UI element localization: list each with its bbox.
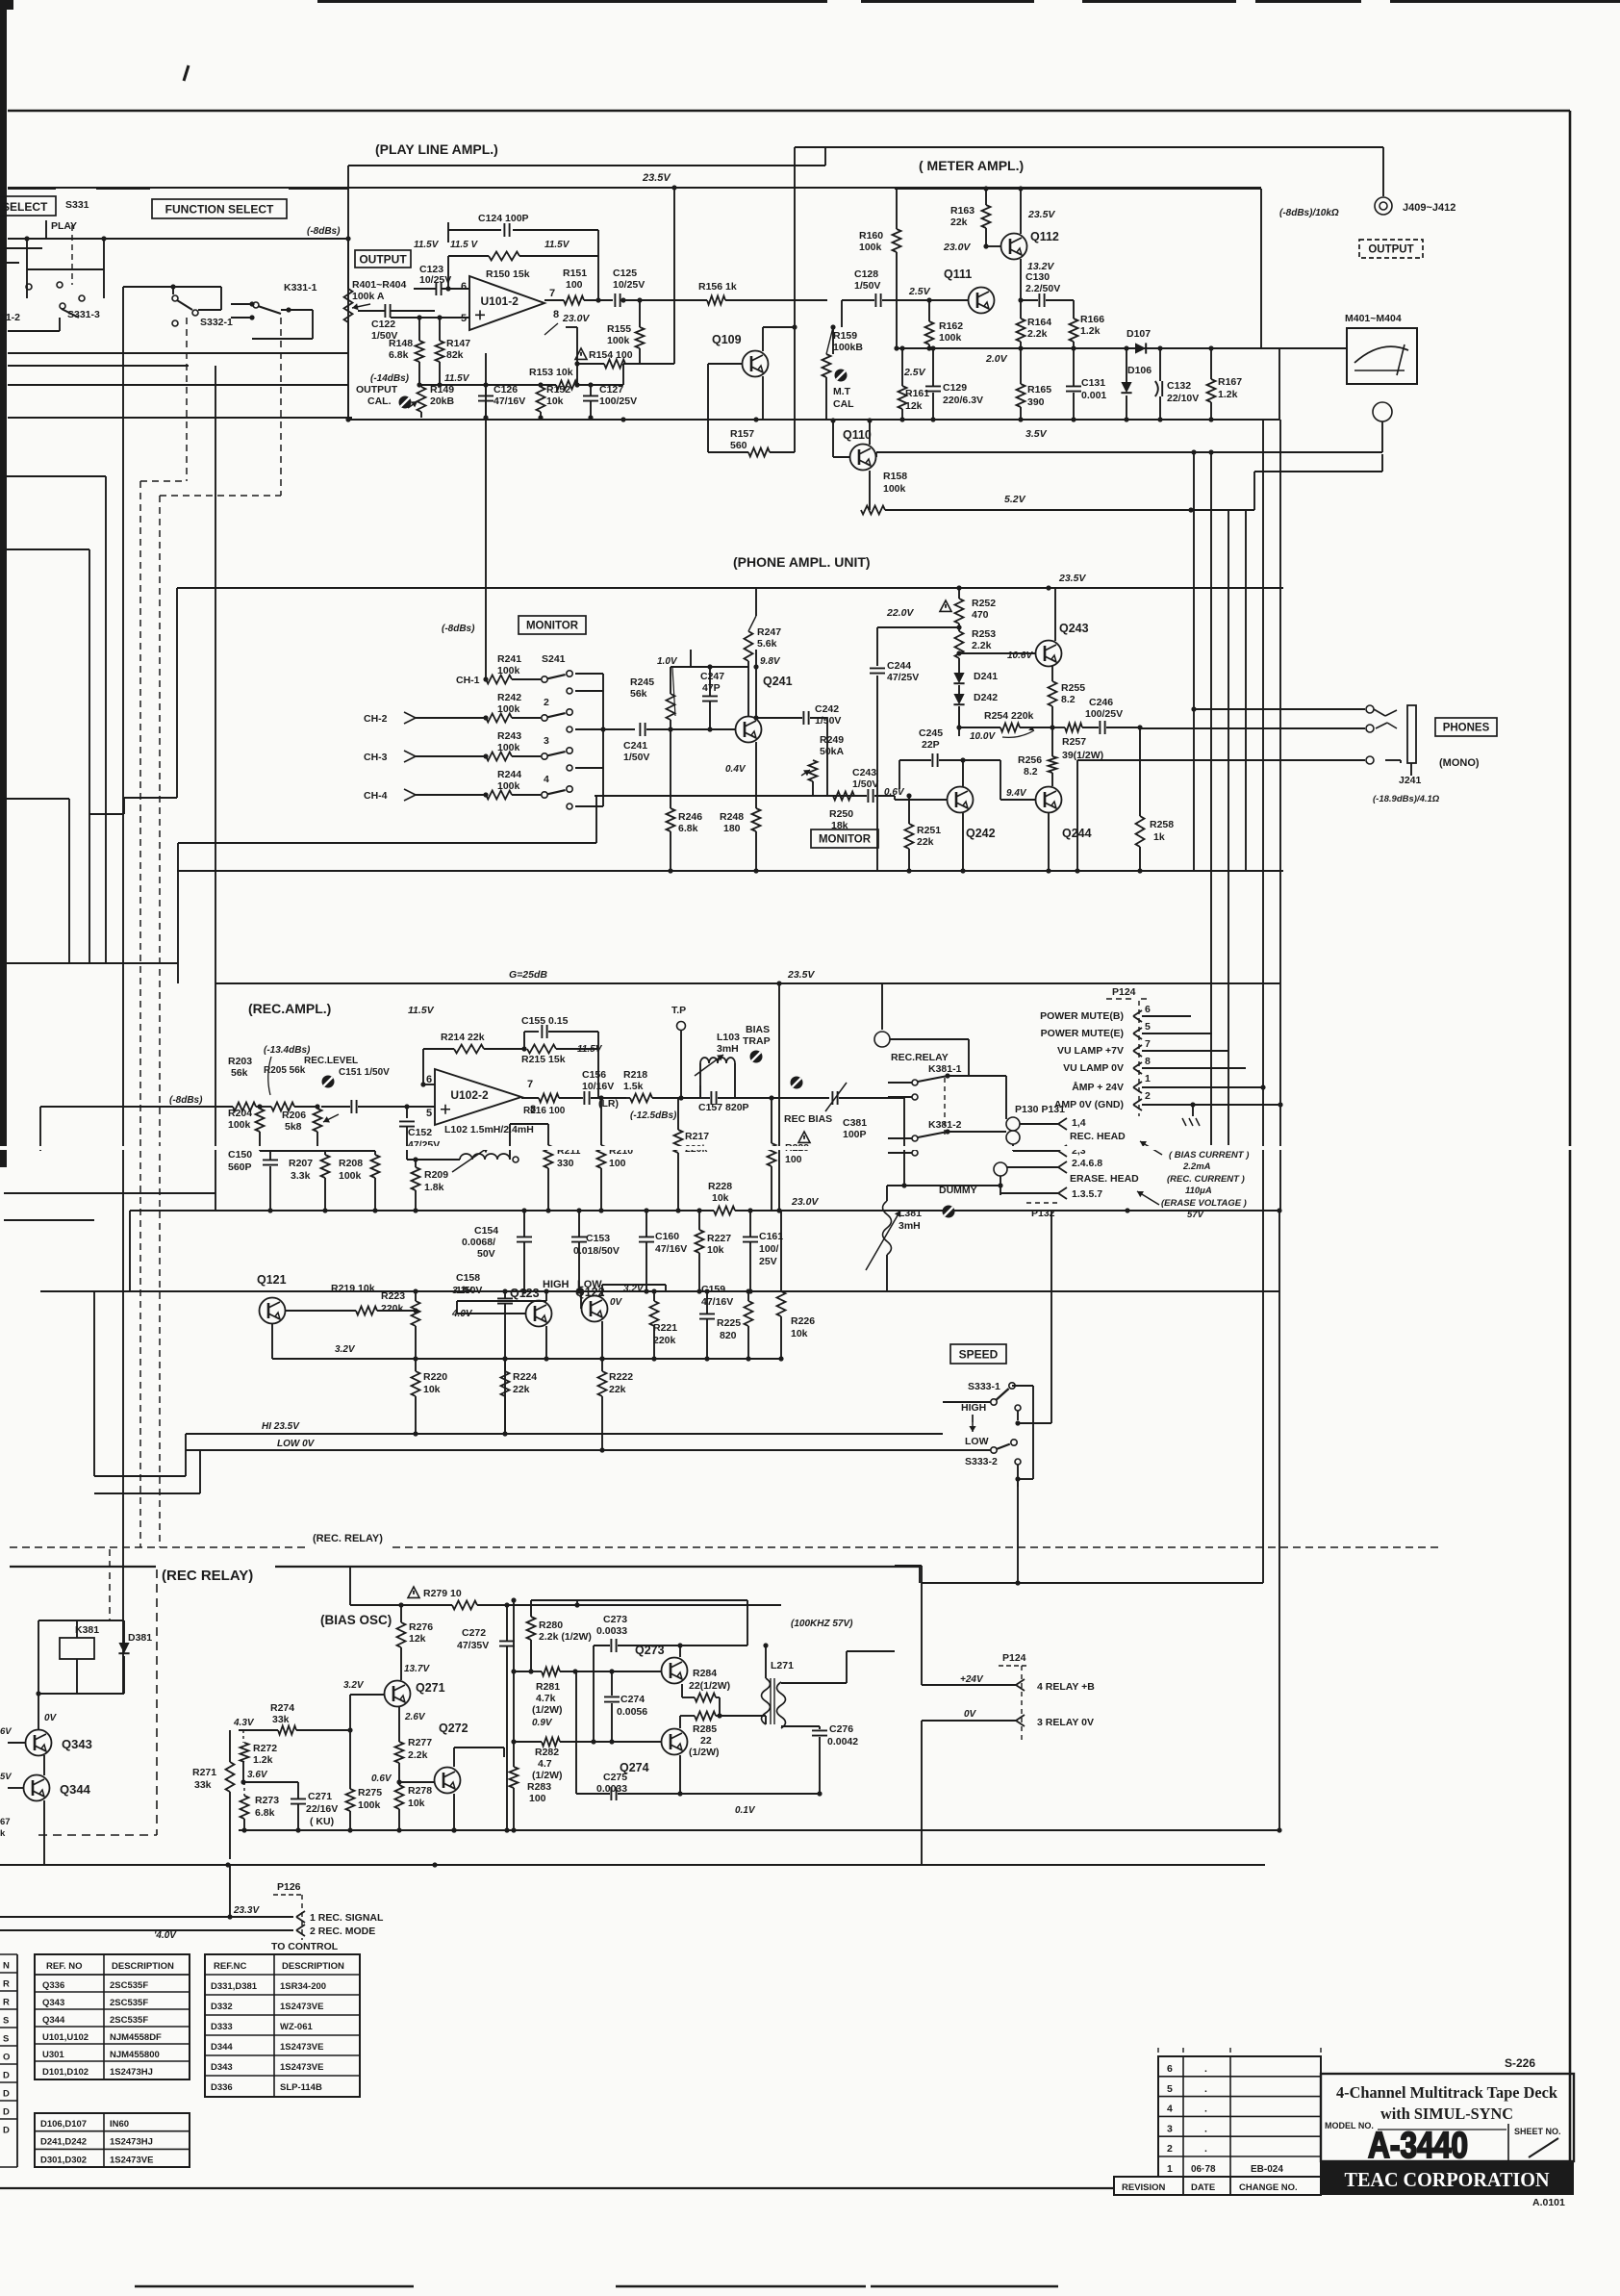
svg-text:23.5V: 23.5V — [1027, 209, 1055, 220]
svg-text:11.5V: 11.5V — [408, 1005, 435, 1016]
svg-text:4: 4 — [1167, 2104, 1173, 2115]
svg-text:100k: 100k — [607, 335, 630, 346]
svg-text:11.5V: 11.5V — [444, 373, 470, 384]
svg-text:5: 5 — [1145, 1021, 1151, 1033]
svg-text:47/25V: 47/25V — [887, 672, 919, 683]
transistor Q273 — [662, 1658, 688, 1684]
svg-text:6.8k: 6.8k — [678, 823, 698, 834]
svg-text:11.5V: 11.5V — [577, 1044, 603, 1055]
ground symbol — [1192, 1105, 1194, 1116]
svg-text:10/16V: 10/16V — [582, 1081, 614, 1092]
svg-text:Q336: Q336 — [42, 1980, 64, 1991]
svg-text:D331,D381: D331,D381 — [211, 1981, 258, 1992]
transistor Q112 — [1001, 234, 1027, 260]
svg-text:0.018/50V: 0.018/50V — [573, 1245, 620, 1257]
capacitor C274 0.0056 — [611, 1671, 613, 1696]
svg-text:10.0V: 10.0V — [970, 731, 996, 742]
svg-text:5.2V: 5.2V — [1004, 494, 1026, 505]
wire C151 to pin5 and C152 — [406, 1107, 408, 1118]
wire Q271 base — [350, 1694, 384, 1696]
svg-text:DESCRIPTION: DESCRIPTION — [282, 1961, 344, 1972]
bus vertical 1241 — [1193, 452, 1195, 871]
svg-text:R160: R160 — [859, 230, 883, 242]
svg-text:D336: D336 — [211, 2082, 233, 2093]
wire meter bottom rail — [899, 417, 904, 421]
svg-text:D106,D107: D106,D107 — [40, 2119, 87, 2130]
svg-text:5.6k: 5.6k — [757, 638, 777, 650]
svg-text:3.2V: 3.2V — [452, 1286, 473, 1296]
svg-text:D107: D107 — [1126, 328, 1151, 340]
svg-text:4 RELAY +B: 4 RELAY +B — [1037, 1681, 1095, 1693]
wire left low rails to rec — [93, 1291, 95, 1476]
svg-text:C274: C274 — [620, 1694, 645, 1705]
svg-text:D332: D332 — [211, 2002, 233, 2012]
svg-text:50kA: 50kA — [820, 746, 845, 757]
svg-text:R214 22k: R214 22k — [441, 1032, 485, 1043]
wire bias common rail 0.1V — [239, 1829, 1279, 1831]
wire 23.5V drop rec — [778, 983, 780, 1211]
wire s332 contacts right — [198, 309, 221, 311]
svg-text:3.5V: 3.5V — [1025, 428, 1048, 440]
svg-text:100k: 100k — [497, 780, 520, 792]
wire Q109 base — [708, 363, 742, 365]
svg-text:(PLAY LINE AMPL.): (PLAY LINE AMPL.) — [375, 141, 498, 157]
wire S333-1 common — [1012, 1385, 1033, 1387]
svg-text:R252: R252 — [972, 598, 996, 609]
wire long vertical 224 — [215, 366, 216, 983]
resistor R278 10k — [395, 1785, 404, 1809]
wire rec signal row — [0, 1916, 293, 1918]
svg-text:10k: 10k — [707, 1244, 724, 1256]
svg-text:R162: R162 — [939, 320, 963, 332]
capacitor C243 1/50V — [868, 789, 873, 803]
svg-text:S332-1: S332-1 — [200, 317, 233, 328]
switch S241-2 — [542, 715, 547, 721]
svg-text:HIGH: HIGH — [961, 1402, 986, 1414]
svg-text:2.4.6.8: 2.4.6.8 — [1072, 1158, 1102, 1169]
resistor R280 2.2k(1/2W) — [530, 1600, 532, 1617]
svg-text:C242: C242 — [815, 703, 839, 715]
svg-text:0V: 0V — [610, 1297, 623, 1308]
resistor R244 100k — [486, 791, 512, 800]
wire top row under select — [8, 188, 56, 190]
wire Q109 emitter — [762, 376, 764, 420]
wire Q273 base link — [514, 1671, 531, 1672]
capacitor C271 22/16V KU — [291, 1799, 306, 1803]
dashed vertical left A — [139, 481, 141, 1547]
svg-text:EB-024: EB-024 — [1251, 2164, 1283, 2175]
svg-text:2: 2 — [544, 697, 549, 708]
resistor R276 12k — [400, 1605, 402, 1622]
svg-text:SHEET NO.: SHEET NO. — [1514, 2127, 1561, 2136]
svg-text:4.7k: 4.7k — [536, 1693, 556, 1704]
svg-text:R151: R151 — [563, 268, 587, 279]
svg-text:R224: R224 — [513, 1371, 537, 1383]
svg-text:C151 1/50V: C151 1/50V — [339, 1067, 390, 1078]
svg-text:56k: 56k — [630, 688, 647, 700]
svg-text:C243: C243 — [852, 767, 876, 778]
svg-text:2.5V: 2.5V — [903, 367, 926, 378]
svg-text:180: 180 — [723, 823, 741, 834]
svg-text:A.0101: A.0101 — [1532, 2197, 1565, 2208]
svg-text:100k: 100k — [497, 703, 520, 715]
svg-text:C153: C153 — [586, 1233, 610, 1244]
svg-text:D344: D344 — [211, 2042, 233, 2053]
svg-text:ERASE. HEAD: ERASE. HEAD — [1070, 1173, 1139, 1185]
svg-text:R156 1k: R156 1k — [698, 281, 737, 293]
transistor Q272 — [435, 1768, 461, 1794]
svg-text:7: 7 — [549, 288, 555, 299]
wire output cal rail — [8, 417, 352, 419]
wire play net vertical — [103, 239, 105, 269]
wire long rail 1938 — [0, 1864, 1265, 1866]
boxed label OUTPUT — [355, 250, 411, 268]
svg-text:U102-2: U102-2 — [450, 1088, 489, 1102]
wire Q112 collector — [1020, 189, 1022, 234]
svg-text:1.8k: 1.8k — [424, 1182, 444, 1193]
svg-text:D242: D242 — [974, 692, 998, 703]
resistor R148 6.8k — [418, 318, 420, 341]
svg-text:C247: C247 — [700, 671, 724, 682]
capacitor C131 0.001 — [1066, 386, 1081, 391]
wire Q242 emitter — [962, 813, 964, 871]
wire Q271 emitter — [398, 1707, 400, 1742]
svg-text:22k: 22k — [609, 1384, 626, 1395]
svg-text:VU LAMP +7V: VU LAMP +7V — [1057, 1045, 1124, 1057]
svg-text:R217: R217 — [685, 1131, 709, 1142]
svg-text:R218: R218 — [623, 1069, 647, 1081]
rec relay box top line — [10, 1566, 156, 1568]
dashed jog from S332 — [186, 318, 188, 481]
svg-text:2: 2 — [1145, 1090, 1151, 1102]
capacitor C244 47/25V — [870, 668, 885, 673]
svg-text:R219 10k: R219 10k — [331, 1283, 375, 1294]
svg-text:CAL: CAL — [833, 398, 854, 410]
svg-text:33k: 33k — [194, 1779, 212, 1791]
bus vertical 1277 — [1228, 510, 1229, 1145]
svg-text:Q242: Q242 — [966, 827, 996, 840]
boxed label SELECT partial — [0, 196, 56, 216]
svg-text:C246: C246 — [1089, 697, 1113, 708]
svg-text:A-3440: A-3440 — [1368, 2126, 1468, 2166]
svg-text:2SC535F: 2SC535F — [110, 1980, 148, 1991]
svg-text:8.2: 8.2 — [1024, 766, 1038, 778]
svg-text:C276: C276 — [829, 1723, 853, 1735]
svg-text:22k: 22k — [917, 836, 934, 848]
svg-text:R: R — [3, 1979, 10, 1990]
wire Q243 collector to 23.5V — [1054, 588, 1056, 641]
op-amp U101-2 — [469, 276, 544, 330]
wire secondary bottom lead — [781, 1725, 820, 1727]
resistor R271 33k — [226, 1762, 235, 1792]
svg-text:C160: C160 — [655, 1231, 679, 1242]
resistor R224 22k — [504, 1359, 506, 1371]
wire Q272 emitter — [453, 1794, 455, 1830]
capacitor C276 0.0042 — [812, 1730, 827, 1735]
transistor Q122 — [582, 1296, 608, 1322]
arrow high-low — [972, 1415, 974, 1432]
svg-text:1S2473VE: 1S2473VE — [280, 2042, 323, 2053]
capacitor C126 47/16V — [478, 395, 494, 400]
resistor R228 10k — [714, 1207, 735, 1215]
svg-text:22k: 22k — [513, 1384, 530, 1395]
svg-text:R203: R203 — [228, 1056, 252, 1067]
capacitor C155 0.15 — [523, 1032, 525, 1049]
svg-text:R222: R222 — [609, 1371, 633, 1383]
tick marks above revision table — [1157, 2048, 1159, 2053]
wire erase feed — [887, 1185, 1000, 1186]
svg-text:K381: K381 — [75, 1624, 99, 1636]
wire 23.3V drop — [229, 1865, 231, 1917]
svg-text:Q344: Q344 — [42, 2015, 65, 2026]
svg-text:CH-2: CH-2 — [364, 713, 388, 725]
svg-text:100: 100 — [785, 1154, 802, 1165]
jack circle below meter — [1373, 402, 1392, 421]
svg-text:R148: R148 — [389, 338, 413, 349]
svg-text:S: S — [3, 2034, 9, 2045]
capacitor C152 47/25V — [399, 1121, 415, 1126]
wire long vertical 185 — [177, 871, 179, 983]
bus vertical 1331 — [1279, 420, 1281, 1105]
wire relay to K381-1 — [890, 1038, 969, 1040]
svg-text:1S2473VE: 1S2473VE — [280, 2062, 323, 2073]
svg-text:R225: R225 — [717, 1317, 741, 1329]
svg-text:4.3V: 4.3V — [233, 1718, 255, 1728]
svg-text:5k8: 5k8 — [285, 1121, 302, 1133]
meter ampl inner box top — [895, 188, 1261, 190]
wire Q244 base step — [963, 759, 1000, 761]
wire opamp output — [544, 299, 564, 301]
svg-text:R221: R221 — [653, 1322, 677, 1334]
trimmer screw rec level — [322, 1076, 335, 1088]
svg-text:23.0V: 23.0V — [791, 1196, 819, 1208]
svg-text:AMP 0V (GND): AMP 0V (GND) — [1054, 1099, 1124, 1110]
wire function select ladder — [122, 331, 124, 1694]
capacitor C154 0.0068/50V — [517, 1237, 532, 1241]
svg-text:R154 100: R154 100 — [589, 349, 633, 361]
svg-text:3.2V: 3.2V — [335, 1344, 356, 1355]
svg-text:11.5 V: 11.5 V — [450, 240, 478, 250]
svg-text:6: 6 — [1167, 2063, 1173, 2075]
dashed relay border bottom — [38, 1834, 157, 1836]
svg-text:R248: R248 — [720, 811, 744, 823]
svg-text:1: 1 — [1145, 1073, 1151, 1084]
wire output to rec bias — [779, 1097, 829, 1099]
svg-text:100: 100 — [529, 1793, 546, 1804]
svg-text:8.2: 8.2 — [1061, 694, 1076, 705]
svg-text:1/50V: 1/50V — [852, 778, 878, 790]
dashed link K381 — [944, 1078, 946, 1135]
wire 3.2V bottom rail — [272, 1358, 781, 1360]
capacitor C247 47P — [702, 696, 718, 701]
svg-text:3: 3 — [1167, 2123, 1173, 2134]
svg-text:D: D — [3, 2071, 10, 2081]
wire Q343 Q344 chain — [38, 1703, 39, 1730]
svg-text:0V: 0V — [964, 1709, 977, 1720]
transistor Q241 — [736, 717, 762, 743]
resistor R165 390 — [1020, 348, 1022, 384]
svg-text:(-8dBs)/10kΩ: (-8dBs)/10kΩ — [1279, 208, 1339, 218]
wire R253 to Q243 base — [959, 652, 1035, 654]
svg-text:4-Channel Multitrack Tape Deck: 4-Channel Multitrack Tape Deck — [1336, 2083, 1558, 2102]
svg-text:R164: R164 — [1027, 317, 1051, 328]
variable capacitor C381 100P — [832, 1091, 837, 1105]
svg-text:100k: 100k — [883, 483, 906, 495]
svg-text:6V: 6V — [0, 1726, 12, 1737]
svg-text:2SC535F: 2SC535F — [110, 2015, 148, 2026]
svg-text:DESCRIPTION: DESCRIPTION — [112, 1961, 174, 1972]
svg-text:22/16V: 22/16V — [306, 1803, 338, 1815]
svg-text:1S2473HJ: 1S2473HJ — [110, 2137, 153, 2148]
note arrows — [1140, 1141, 1162, 1155]
connector dashed spine relay — [1021, 1666, 1023, 1740]
svg-text:6: 6 — [461, 281, 467, 293]
wire meter to right border — [1278, 348, 1280, 420]
wire select stub row1 — [0, 247, 42, 249]
wire pin6 riser rec — [422, 1049, 424, 1084]
svg-text:3.3k: 3.3k — [291, 1170, 311, 1182]
svg-text:S331: S331 — [65, 199, 89, 211]
wire 3.6V node — [242, 1762, 244, 1782]
bias trap screw — [750, 1051, 763, 1063]
svg-text:1S2473HJ: 1S2473HJ — [110, 2067, 153, 2078]
wire row 1258 left extension — [130, 1210, 217, 1212]
resistor R223 220k — [415, 1291, 417, 1301]
wire Q242 base node — [962, 760, 964, 786]
svg-text:NJM4558DF: NJM4558DF — [110, 2032, 162, 2043]
svg-text:1/50V: 1/50V — [623, 752, 649, 763]
svg-text:10k: 10k — [791, 1328, 808, 1339]
svg-text:HIGH: HIGH — [543, 1279, 570, 1290]
svg-text:6.8k: 6.8k — [389, 349, 409, 361]
svg-text:R276: R276 — [409, 1621, 433, 1633]
svg-text:R153 10k: R153 10k — [529, 367, 573, 378]
svg-text:2.2k: 2.2k — [1027, 328, 1048, 340]
svg-text:ÅMP + 24V: ÅMP + 24V — [1072, 1081, 1124, 1093]
svg-text:C125: C125 — [613, 268, 637, 279]
wire Q112 emitter to C130 node — [1020, 259, 1022, 300]
scan edge broken line top — [317, 0, 827, 3]
svg-text:R244: R244 — [497, 769, 521, 780]
svg-text:K331-1: K331-1 — [284, 282, 317, 293]
svg-text:R281: R281 — [536, 1681, 560, 1693]
diode D106 — [1121, 382, 1131, 393]
capacitor C129 220/6.3V — [925, 386, 941, 391]
svg-text:R204: R204 — [228, 1108, 252, 1119]
svg-text:OUTPUT: OUTPUT — [1368, 244, 1413, 256]
svg-text:OUTPUT: OUTPUT — [359, 252, 407, 266]
resistor R250 18k — [833, 792, 854, 801]
svg-text:9.8V: 9.8V — [760, 656, 781, 667]
svg-text:'4.0V: '4.0V — [154, 1930, 177, 1941]
svg-text:100kB: 100kB — [833, 342, 863, 353]
svg-text:0.1V: 0.1V — [735, 1805, 756, 1816]
wire 0V to pin 3 — [922, 1720, 1016, 1722]
svg-text:R271: R271 — [192, 1767, 216, 1778]
svg-text:2.2k (1/2W): 2.2k (1/2W) — [539, 1631, 592, 1643]
svg-text:R254 220k: R254 220k — [984, 710, 1034, 722]
switch S333-2 — [991, 1447, 997, 1453]
svg-text:1.3.5.7: 1.3.5.7 — [1072, 1188, 1102, 1200]
svg-text:MODEL NO.: MODEL NO. — [1325, 2121, 1374, 2130]
boxed label SPEED — [950, 1344, 1006, 1364]
svg-text:(MONO): (MONO) — [1439, 757, 1480, 769]
wire Q122 base — [580, 1291, 582, 1309]
switch S333-1 — [991, 1399, 997, 1405]
svg-text:10k: 10k — [408, 1798, 425, 1809]
resistor R275 100k — [346, 1789, 355, 1811]
resistor R147 82k — [439, 318, 441, 341]
svg-text:Q243: Q243 — [1059, 622, 1089, 635]
wire meter plus terminal — [1279, 347, 1347, 349]
wire bias ladder top — [577, 1599, 747, 1601]
resistor R167 1.2k — [1210, 348, 1212, 379]
wire rec relay feed — [881, 983, 883, 1030]
capacitor C127 100/25V — [583, 395, 598, 400]
svg-text:Q121: Q121 — [257, 1273, 287, 1287]
wire left nest box2 — [4, 548, 89, 550]
wire 4.3V corner — [229, 1730, 231, 1762]
svg-text:100P: 100P — [843, 1129, 867, 1140]
twisted pair rec head — [1006, 1117, 1020, 1131]
svg-text:47/16V: 47/16V — [701, 1296, 733, 1308]
svg-text:R245: R245 — [630, 676, 654, 688]
resistor R162 100k — [928, 300, 930, 321]
wire Q122 collector to 3.2V — [601, 1285, 603, 1296]
svg-text:22: 22 — [700, 1735, 712, 1747]
svg-text:Q343: Q343 — [62, 1737, 92, 1751]
resistor R252 470 with warning — [940, 600, 951, 611]
svg-text:22/10V: 22/10V — [1167, 393, 1199, 404]
capacitor C122 — [385, 304, 390, 318]
svg-text:(ERASE VOLTAGE ): (ERASE VOLTAGE ) — [1161, 1198, 1247, 1209]
wire row 1001 — [4, 962, 178, 964]
svg-text:D241,D242: D241,D242 — [40, 2137, 87, 2148]
svg-text:P124: P124 — [1002, 1652, 1026, 1664]
svg-text:C156: C156 — [582, 1069, 606, 1081]
wire left nest box1 — [4, 475, 106, 477]
svg-text:31-2: 31-2 — [0, 312, 20, 323]
resistor R210 100 — [600, 1098, 602, 1145]
dashed relay border vertical — [156, 1569, 158, 1835]
wire bias top node — [576, 1604, 578, 1606]
svg-text:Q344: Q344 — [60, 1782, 91, 1797]
svg-text:R277: R277 — [408, 1737, 432, 1748]
wire hi rail left corner — [185, 1434, 187, 1476]
svg-text:CHANGE NO.: CHANGE NO. — [1239, 2182, 1298, 2193]
bias osc box — [919, 1567, 921, 1583]
svg-text:(REC RELAY): (REC RELAY) — [162, 1568, 253, 1584]
wire C128 left lead — [841, 300, 843, 327]
svg-text:R216 100: R216 100 — [523, 1106, 566, 1116]
svg-text:100k: 100k — [939, 332, 962, 344]
connector rec head pins — [1058, 1118, 1067, 1130]
boxed label MONITOR top — [519, 616, 586, 634]
svg-text:S-226: S-226 — [1505, 2056, 1535, 2070]
resistor R207 3.3k — [324, 1151, 326, 1155]
svg-text:G=25dB: G=25dB — [509, 969, 547, 981]
parts table left fragment — [16, 1954, 18, 2167]
svg-text:REF. NO: REF. NO — [46, 1961, 82, 1972]
resistor R216 100 — [539, 1094, 559, 1103]
svg-text:R249: R249 — [820, 734, 844, 746]
scan seam white band — [0, 1146, 1620, 1150]
svg-text:R209: R209 — [424, 1169, 448, 1181]
switch S331-2 contact — [26, 284, 32, 290]
svg-text:Q111: Q111 — [944, 268, 972, 281]
svg-text:2.2k: 2.2k — [408, 1749, 428, 1761]
bus vertical 1259 — [1210, 452, 1212, 1145]
